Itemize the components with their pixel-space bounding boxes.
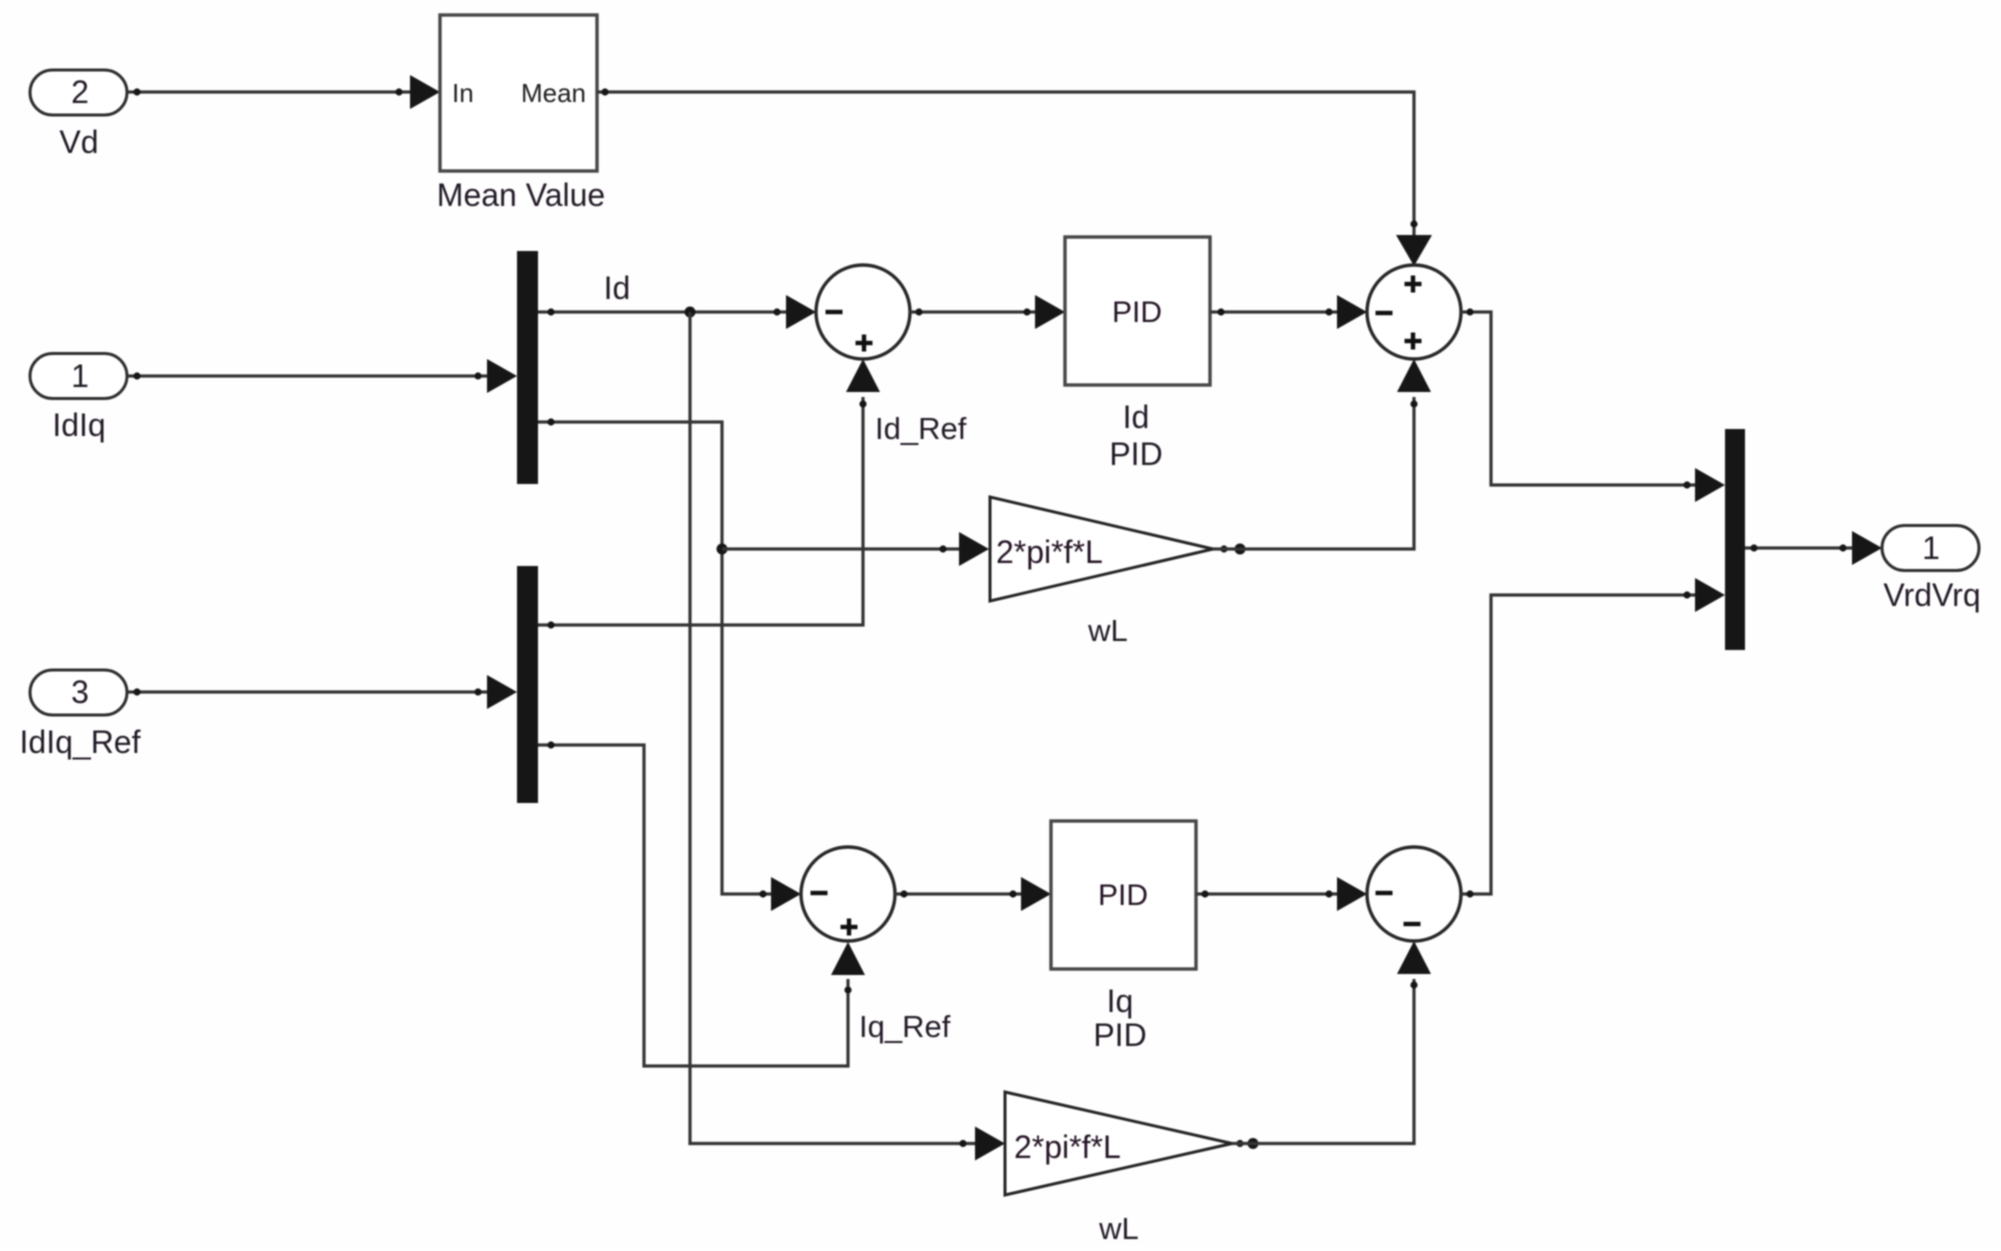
svg-text:Iq: Iq bbox=[1107, 983, 1134, 1019]
demux1 (splits Id / Iq) bbox=[517, 251, 538, 484]
block PID (Id) bbox=[1065, 237, 1210, 385]
wire Vd to Mean Value bbox=[128, 90, 413, 93]
svg-text:2*pi*f*L: 2*pi*f*L bbox=[1014, 1129, 1121, 1165]
sum S2 (Vd output sum) bbox=[1367, 265, 1461, 359]
demux2 (splits Id_Ref / Iq_Ref) bbox=[517, 566, 538, 803]
sum S3 (Iq error) bbox=[801, 847, 895, 941]
wire S1 to PID Id bbox=[910, 310, 1038, 313]
svg-text:Mean: Mean bbox=[521, 78, 586, 108]
svg-text:VrdVrq: VrdVrq bbox=[1883, 577, 1980, 613]
wire wL1 output up into sum S2 bottom bbox=[1220, 545, 1227, 552]
svg-text:1: 1 bbox=[1922, 530, 1940, 566]
svg-text:IdIq_Ref: IdIq_Ref bbox=[20, 724, 141, 760]
svg-text:Id_Ref: Id_Ref bbox=[875, 411, 967, 446]
wire PID Id to sum S2 bbox=[1210, 310, 1340, 313]
gain wL2 (2*pi*f*L) bbox=[1005, 1092, 1232, 1195]
wire mux output to port VrdVrq bbox=[1745, 546, 1855, 549]
svg-text:Mean Value: Mean Value bbox=[437, 177, 605, 213]
wire Id_Ref : demux2 out1 up into sum S1 bbox=[538, 397, 863, 625]
svg-text:IdIq: IdIq bbox=[52, 407, 105, 443]
wire S3 to PID Iq bbox=[895, 892, 1024, 895]
input port 2 (Vd) bbox=[30, 70, 127, 115]
svg-text:1: 1 bbox=[71, 358, 89, 394]
block Mean Value (In/Mean) bbox=[440, 15, 597, 171]
svg-text:2*pi*f*L: 2*pi*f*L bbox=[996, 534, 1103, 570]
wire Iq : demux1 out2 down to sum S3 bbox=[538, 422, 774, 894]
block PID (Iq) bbox=[1051, 821, 1196, 969]
wire Iq_Ref : demux2 out2 down and into sum S3 bottom bbox=[538, 745, 848, 1066]
input port 1 (IdIq) bbox=[30, 354, 127, 399]
wire IdIq_Ref to demux2 bbox=[128, 690, 490, 693]
svg-text:Vd: Vd bbox=[59, 124, 98, 160]
svg-text:Id: Id bbox=[1123, 399, 1150, 435]
svg-text:wL: wL bbox=[1087, 613, 1128, 648]
wire S2 output to mux in1 bbox=[1461, 312, 1698, 485]
svg-text:PID: PID bbox=[1098, 879, 1148, 912]
sum S1 (Id error) bbox=[816, 265, 910, 359]
svg-text:In: In bbox=[452, 78, 474, 108]
wire wL2 output up into sum S4 bottom bbox=[1236, 1140, 1243, 1147]
svg-text:Iq_Ref: Iq_Ref bbox=[859, 1009, 951, 1044]
svg-text:PID: PID bbox=[1109, 436, 1162, 472]
svg-text:PID: PID bbox=[1112, 296, 1162, 329]
gain wL1 (2*pi*f*L) bbox=[990, 497, 1213, 601]
wire Id : demux1 out1 to sum S1 bbox=[538, 310, 788, 313]
node junction Iq tap to gain wL1 bbox=[717, 544, 728, 555]
wire PID Iq to sum S4 bbox=[1196, 892, 1340, 895]
output port 1 (VrdVrq) bbox=[1882, 526, 1979, 571]
input port 3 (IdIq_Ref) bbox=[30, 670, 127, 715]
svg-text:2: 2 bbox=[71, 74, 89, 110]
svg-text:wL: wL bbox=[1098, 1211, 1139, 1246]
sum S4 (Vq output sum) bbox=[1367, 847, 1461, 941]
wire Iq tap to gain wL1 input bbox=[722, 547, 962, 550]
svg-text:Id: Id bbox=[604, 270, 631, 306]
wire Mean output down to sum S2 top bbox=[597, 92, 1414, 235]
wire S4 output to mux in2 bbox=[1461, 595, 1698, 894]
mux (VrdVrq combiner) bbox=[1725, 429, 1745, 650]
wire Id down to gain wL2 input bbox=[690, 312, 978, 1144]
wire IdIq to demux1 bbox=[128, 374, 490, 377]
node junction Id tap bbox=[685, 307, 696, 318]
svg-text:PID: PID bbox=[1093, 1017, 1146, 1053]
svg-text:3: 3 bbox=[71, 674, 89, 710]
